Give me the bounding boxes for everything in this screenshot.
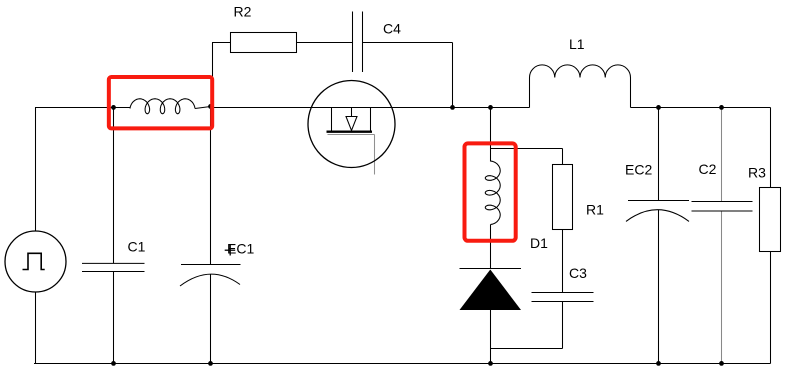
svg-text:C4: C4: [383, 21, 401, 37]
svg-text:R2: R2: [234, 4, 252, 20]
svg-text:EC1: EC1: [227, 241, 254, 257]
svg-text:R1: R1: [586, 202, 604, 218]
svg-text:C3: C3: [569, 265, 587, 281]
svg-text:C1: C1: [128, 239, 146, 255]
svg-text:EC2: EC2: [625, 162, 652, 178]
svg-text:L1: L1: [569, 36, 585, 52]
svg-text:D1: D1: [530, 235, 548, 251]
svg-text:R3: R3: [748, 165, 766, 181]
svg-text:C2: C2: [699, 161, 717, 177]
